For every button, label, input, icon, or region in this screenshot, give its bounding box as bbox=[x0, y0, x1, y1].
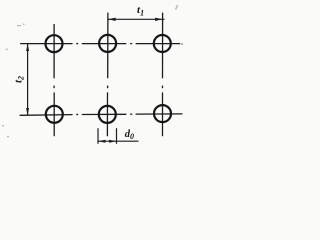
dimension t2 arrow top bbox=[26, 44, 29, 51]
hole circle bottom-right bbox=[154, 105, 171, 122]
dimension t2 arrow bottom bbox=[26, 108, 29, 115]
centerline row 2 horizontal bbox=[20, 114, 183, 115]
dimension d0 arrow left bbox=[98, 140, 105, 143]
scan noise specks bbox=[2, 5, 178, 138]
hole circle top-left bbox=[46, 35, 63, 52]
centerline row 1 horizontal bbox=[20, 43, 180, 45]
dimension t2 line bbox=[27, 44, 29, 116]
centerline column 1 vertical bbox=[53, 24, 55, 136]
dimension d0 line bbox=[98, 140, 139, 142]
hole circle bottom-left bbox=[46, 106, 63, 123]
hole circle top-right bbox=[154, 35, 171, 52]
d0 extension line right bbox=[116, 128, 118, 144]
dimension t1 line bbox=[108, 18, 164, 20]
centerline dot right of top-right circle bbox=[181, 43, 183, 44]
hole circle bottom-middle bbox=[99, 106, 116, 123]
centerline column 2 vertical (t1 extension) bbox=[106, 13, 109, 137]
centerline column 3 vertical (t1 extension) bbox=[162, 13, 164, 137]
d0 extension line left bbox=[97, 128, 99, 144]
dimension t1 arrow left bbox=[108, 18, 115, 21]
dimension d0 arrow right bbox=[109, 140, 116, 143]
dimension t1 arrow right bbox=[155, 18, 162, 21]
hole circle top-middle bbox=[99, 35, 116, 52]
